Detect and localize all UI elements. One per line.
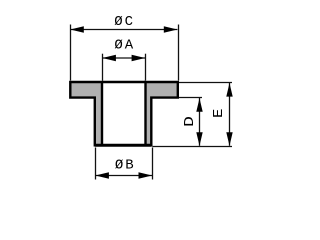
svg-text:ØC: ØC bbox=[114, 14, 135, 30]
svg-text:ØA: ØA bbox=[114, 38, 135, 54]
svg-text:ØB: ØB bbox=[115, 158, 136, 174]
svg-text:D: D bbox=[181, 116, 197, 127]
svg-text:E: E bbox=[211, 109, 226, 118]
